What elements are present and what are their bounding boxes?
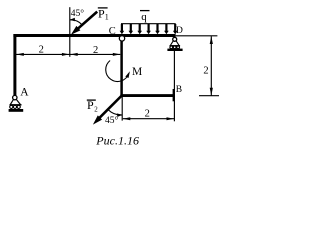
- svg-text:Рис.1.16: Рис.1.16: [95, 133, 139, 147]
- wire extension D to B to dim: [173, 51, 175, 121]
- support A rollers: [10, 105, 13, 108]
- support A triangle: [10, 100, 13, 105]
- support D pin circle: [173, 37, 177, 41]
- load arrow 5: [156, 24, 158, 31]
- svg-text:2: 2: [39, 45, 44, 56]
- support A ground: [9, 109, 24, 112]
- svg-text:1: 1: [105, 13, 109, 22]
- wire bottom tick right dim: [199, 95, 219, 97]
- moment M arc: [106, 61, 129, 82]
- svg-text:2: 2: [93, 45, 98, 56]
- svg-text:q: q: [141, 11, 147, 23]
- angle 45 deg arc at P1: [70, 20, 82, 25]
- wire middle column C: [120, 37, 123, 97]
- wire extension right of D: [176, 35, 218, 37]
- load arrow 2: [130, 24, 132, 31]
- wire extension below junction: [121, 97, 123, 121]
- hinge circle at C: [119, 36, 124, 41]
- svg-text:45°: 45°: [71, 8, 85, 19]
- angle 45 deg arc at P2: [108, 109, 122, 115]
- wire extension line at P1: [69, 7, 71, 57]
- svg-text:C: C: [109, 26, 116, 37]
- svg-text:2: 2: [94, 105, 98, 113]
- support D rollers: [170, 46, 173, 49]
- load arrow 7: [174, 24, 176, 31]
- wire top beam C-D: [13, 34, 175, 37]
- support D triangle: [170, 41, 173, 46]
- label q with overline: [140, 10, 150, 12]
- svg-text:D: D: [176, 26, 183, 36]
- force P1 arrow: [76, 12, 97, 31]
- node B end cap: [173, 89, 175, 101]
- support A pin circle: [13, 95, 17, 99]
- dimension line 2 right side: [210, 36, 212, 95]
- svg-text:A: A: [20, 87, 29, 99]
- svg-text:2: 2: [145, 108, 150, 119]
- force P2 arrow: [99, 96, 122, 119]
- load arrow 1: [121, 24, 123, 31]
- dimension line 2 under lower beam: [123, 118, 174, 120]
- support D ground: [167, 49, 182, 51]
- label P2 with overline: [87, 99, 96, 101]
- load arrow 4: [148, 24, 150, 31]
- wire left column: [13, 34, 16, 95]
- distributed load q top line: [121, 23, 176, 25]
- svg-text:M: M: [132, 66, 142, 78]
- load arrow 6: [165, 24, 167, 31]
- svg-text:B: B: [176, 85, 182, 95]
- svg-text:P: P: [87, 98, 94, 112]
- wire lower beam to B: [120, 94, 173, 97]
- dimension line 2+2 under top beam: [16, 53, 120, 55]
- svg-text:45°: 45°: [105, 115, 119, 126]
- load arrow 3: [139, 24, 141, 31]
- svg-text:2: 2: [203, 66, 208, 77]
- label P1 with overline: [98, 7, 108, 9]
